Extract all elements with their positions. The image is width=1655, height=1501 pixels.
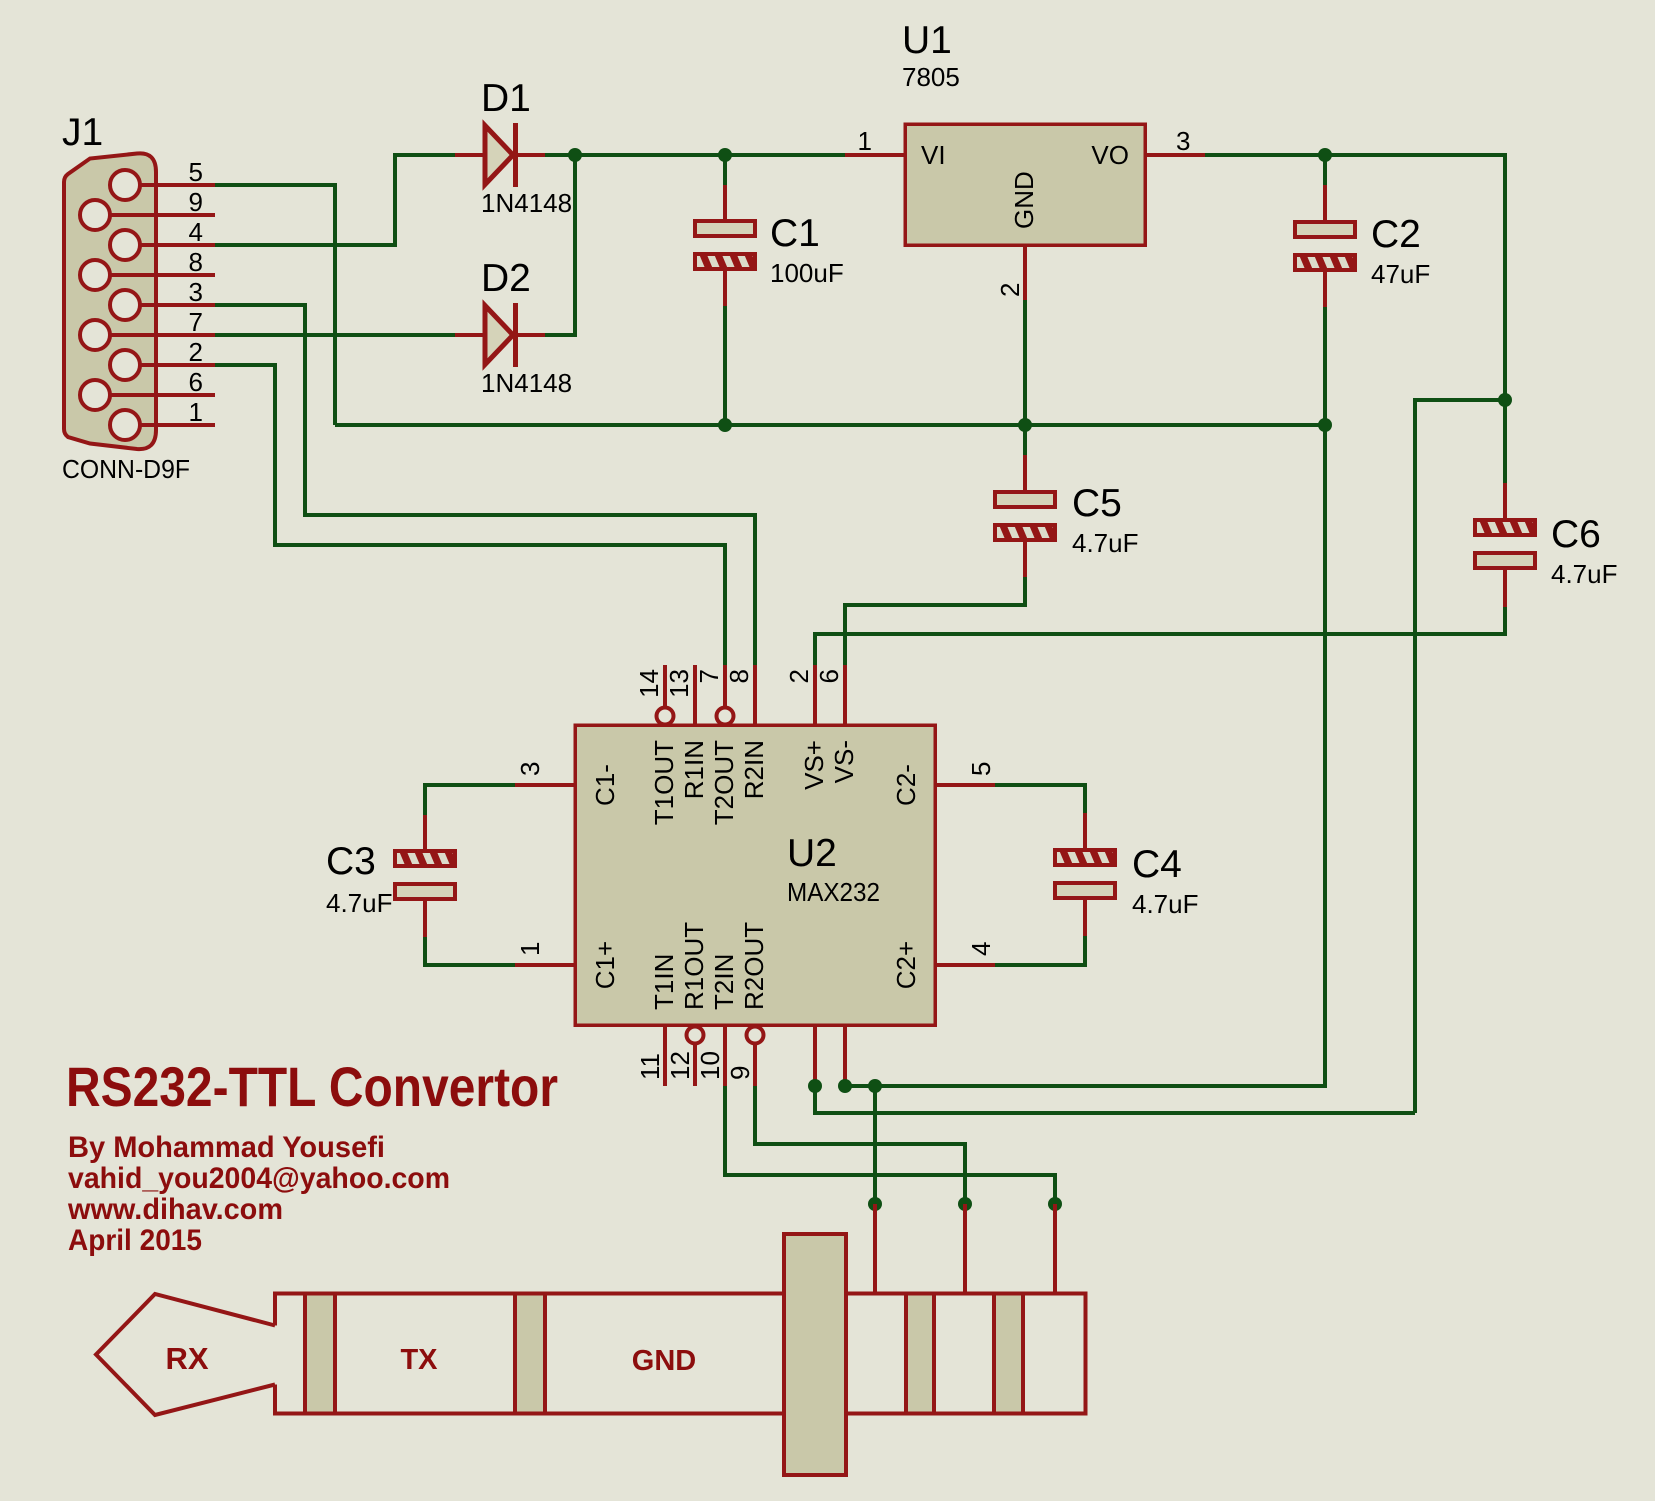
svg-text:1N4148: 1N4148 (481, 188, 572, 218)
svg-text:VO: VO (1091, 140, 1129, 170)
junction +5V/C6 branch (1498, 393, 1512, 407)
svg-text:R1OUT: R1OUT (679, 922, 709, 1010)
J1 pin 9 stub (110, 213, 215, 217)
J1 pin 6 stub (110, 393, 215, 397)
junction D2/D1 cathodes (568, 148, 582, 162)
capacitor C4 (4.7uF) (1047, 813, 1115, 936)
svg-text:8: 8 (724, 669, 754, 683)
jack J2 body (275, 1294, 1086, 1414)
svg-text:C6: C6 (1551, 513, 1601, 556)
wire +5V branch to U2 VCC riser (1415, 400, 1505, 1113)
diode D2 (1N4148) (455, 303, 545, 367)
J1 pin 5 stub (140, 183, 215, 187)
U1 pin 2 GND stub (1023, 245, 1027, 300)
junction ground/jack sleeve branch (868, 1079, 882, 1093)
svg-text:4.7uF: 4.7uF (1072, 528, 1139, 558)
J1 pin 8 contact circle (80, 260, 110, 290)
wire C3 bottom to U2 pin1 C1+ (425, 937, 515, 965)
junction C2/+5V (1318, 148, 1332, 162)
J1 pin 2 stub (140, 363, 215, 367)
J1 pin 4 contact circle (110, 230, 140, 260)
jack center tab (sleeve) (784, 1234, 846, 1475)
IC U1 7805 body (905, 124, 1145, 245)
svg-text:T2IN: T2IN (709, 954, 739, 1010)
svg-text:T1IN: T1IN (649, 954, 679, 1010)
svg-text:13: 13 (664, 669, 694, 698)
svg-text:TX: TX (400, 1344, 438, 1376)
wire C4 bottom to U2 pin4 C2+ (995, 936, 1085, 965)
junction C1/ground (718, 418, 732, 432)
svg-text:J1: J1 (62, 111, 103, 154)
svg-text:3: 3 (1176, 126, 1190, 156)
J1 pin 7 stub (110, 333, 215, 337)
jack insulator band 2 (515, 1294, 545, 1414)
jack TX-side pin stub (963, 1204, 967, 1293)
svg-text:C1+: C1+ (590, 941, 620, 989)
svg-text:D2: D2 (481, 257, 531, 300)
J1 pin 1 stub (140, 423, 215, 427)
wire J1 pin2 to U2 pin7 (T2OUT) (215, 365, 725, 665)
jack insulator band 3 (906, 1294, 934, 1414)
svg-text:MAX232: MAX232 (787, 877, 880, 907)
U2 pin 2 stub (813, 665, 817, 725)
svg-text:C5: C5 (1072, 482, 1122, 525)
J1 pin 5 contact circle (110, 170, 140, 200)
junction jack TX pin (958, 1197, 972, 1211)
U2 pin 11 stub (663, 1025, 667, 1086)
svg-text:CONN-D9F: CONN-D9F (62, 454, 190, 484)
jack insulator band 1 (305, 1294, 335, 1414)
U2 pin 16 VCC stub (813, 1025, 817, 1086)
svg-text:C1-: C1- (590, 764, 620, 806)
svg-text:6: 6 (814, 669, 844, 683)
svg-text:4.7uF: 4.7uF (1132, 889, 1199, 919)
svg-text:12: 12 (665, 1051, 695, 1080)
svg-text:C1: C1 (770, 212, 820, 255)
svg-text:VI: VI (921, 140, 946, 170)
svg-text:4.7uF: 4.7uF (1551, 559, 1618, 589)
svg-text:C3: C3 (326, 840, 376, 883)
svg-text:1: 1 (515, 942, 545, 956)
wire D2 cathode to node VIN (545, 155, 575, 335)
svg-text:R1IN: R1IN (679, 740, 709, 799)
svg-text:U2: U2 (787, 832, 837, 875)
jack tip arrow (RX) (96, 1294, 275, 1415)
capacitor C3 (4.7uF) (387, 815, 455, 937)
U2 pin 1 C1+ stub (515, 963, 575, 967)
capacitor C5 (4.7uF) (987, 455, 1055, 577)
svg-text:VS+: VS+ (799, 740, 829, 790)
jack sleeve pin stub (873, 1204, 877, 1293)
svg-text:7: 7 (189, 307, 203, 337)
wire C1 bottom lead to ground (723, 306, 727, 425)
svg-text:R2OUT: R2OUT (739, 922, 769, 1010)
wire U2 VCC pin to +5V riser (815, 1086, 1415, 1113)
svg-text:T2OUT: T2OUT (709, 740, 739, 825)
wire U2 pin9 R2OUT to jack TX contact (755, 1086, 965, 1204)
svg-text:7: 7 (694, 669, 724, 683)
svg-text:C2+: C2+ (891, 941, 921, 989)
svg-text:4.7uF: 4.7uF (326, 888, 393, 918)
capacitor C2 (47uF) (1287, 185, 1355, 307)
jack insulator band 4 (994, 1294, 1023, 1414)
svg-text:C4: C4 (1132, 843, 1182, 886)
svg-text:RS232-TTL Convertor: RS232-TTL Convertor (66, 1055, 558, 1118)
svg-text:9: 9 (189, 187, 203, 217)
svg-text:RX: RX (165, 1341, 208, 1376)
jack ring pin stub (1053, 1204, 1057, 1293)
svg-text:2: 2 (995, 283, 1025, 297)
J1 pin 1 contact circle (110, 410, 140, 440)
svg-text:T1OUT: T1OUT (649, 740, 679, 825)
U2 pin 7 bubble (717, 708, 734, 725)
svg-text:11: 11 (635, 1053, 665, 1080)
junction C2/ground riser (1318, 418, 1332, 432)
svg-text:vahid_you2004@yahoo.com: vahid_you2004@yahoo.com (68, 1162, 450, 1195)
svg-text:8: 8 (189, 247, 203, 277)
J1 pin 8 stub (110, 273, 215, 277)
wire C5 top lead to ground (1023, 425, 1027, 455)
svg-text:D1: D1 (481, 77, 531, 120)
svg-text:1: 1 (858, 126, 872, 156)
wire U2 pin2 VS+ to C6 bottom (815, 607, 1505, 665)
U1 pin 1 VI stub (845, 153, 905, 157)
IC U2 MAX232 body (575, 725, 935, 1025)
svg-text:14: 14 (634, 669, 664, 698)
U2 pin 10 stub (723, 1025, 727, 1086)
J1 pin 2 contact circle (110, 350, 140, 380)
U2 pin 9 bubble (747, 1027, 764, 1044)
wire U1 GND pin to ground (1023, 300, 1027, 425)
U2 pin 9 stub (753, 1044, 757, 1086)
wire U2 pin10 T2IN to jack ring contact (725, 1086, 1055, 1204)
wire C2 bottom lead to ground (1323, 307, 1327, 425)
J1 pin 4 stub (140, 243, 215, 247)
junction jack sleeve pin (868, 1197, 882, 1211)
capacitor C6 (4.7uF) (1467, 483, 1535, 607)
svg-text:6: 6 (189, 367, 203, 397)
U2 pin 12 bubble (687, 1027, 704, 1044)
junction U2 GND pin (838, 1079, 852, 1093)
junction jack ring pin (1048, 1197, 1062, 1211)
svg-text:C2-: C2- (891, 764, 921, 806)
wire jack sleeve branch (873, 1086, 877, 1204)
wire J1 pin5 to ground rail (215, 185, 335, 425)
U2 pin 4 C2+ stub (935, 963, 995, 967)
capacitor C1 (100uF) (687, 185, 755, 306)
wire C4 top to U2 pin5 C2- (995, 785, 1085, 813)
svg-text:U1: U1 (902, 19, 952, 62)
junction U1 GND/C5/ground (1018, 418, 1032, 432)
svg-text:4: 4 (189, 217, 203, 247)
J1 pin 7 contact circle (80, 320, 110, 350)
wire J1 pin4 to D1 anode (215, 155, 455, 245)
svg-text:47uF: 47uF (1371, 259, 1430, 289)
U2 pin 14 stub (663, 665, 667, 707)
wire U1 VO to +5V rail (1205, 155, 1505, 483)
svg-text:5: 5 (189, 157, 203, 187)
connector J1 CONN-D9F body (64, 153, 156, 449)
svg-text:R2IN: R2IN (739, 740, 769, 799)
svg-text:3: 3 (515, 762, 545, 776)
wire C1 top lead (723, 155, 727, 185)
U2 pin 14 bubble (657, 708, 674, 725)
svg-text:1: 1 (189, 397, 203, 427)
wire J1 pin3 to U2 pin8 (R2IN) (215, 305, 755, 665)
U2 pin 6 stub (843, 665, 847, 725)
svg-text:April 2015: April 2015 (68, 1224, 202, 1257)
junction C1/VIN (718, 148, 732, 162)
svg-text:www.dihav.com: www.dihav.com (67, 1193, 283, 1226)
svg-text:C2: C2 (1371, 213, 1421, 256)
svg-text:3: 3 (189, 277, 203, 307)
wire C3 top to U2 pin3 C1- (425, 785, 515, 815)
svg-text:2: 2 (784, 669, 814, 683)
svg-text:GND: GND (632, 1345, 696, 1377)
U2 pin 13 stub (693, 665, 697, 725)
U2 pin 7 stub (723, 665, 727, 707)
wire ground rail y=425 (335, 423, 1325, 427)
U1 pin 3 VO stub (1145, 153, 1205, 157)
svg-text:5: 5 (966, 762, 996, 776)
svg-text:2: 2 (189, 337, 203, 367)
J1 pin 3 stub (140, 303, 215, 307)
svg-text:By Mohammad Yousefi: By Mohammad Yousefi (68, 1131, 385, 1164)
U2 pin 3 C1- stub (515, 783, 575, 787)
junction U2 VCC pin (808, 1079, 822, 1093)
svg-text:4: 4 (966, 942, 996, 956)
wire U2 GND pin to ground riser (845, 425, 1325, 1086)
svg-text:9: 9 (725, 1066, 755, 1080)
diode D1 (1N4148) (455, 123, 545, 187)
svg-text:7805: 7805 (902, 62, 960, 92)
wire C2 top lead (1323, 155, 1327, 185)
svg-text:100uF: 100uF (770, 258, 844, 288)
U2 pin 5 C2- stub (935, 783, 995, 787)
J1 pin 9 contact circle (80, 200, 110, 230)
J1 pin 6 contact circle (80, 380, 110, 410)
U2 pin 8 stub (753, 665, 757, 725)
U2 pin 12 stub (693, 1044, 697, 1086)
wire D1 cathode to node VIN (545, 153, 845, 157)
svg-text:10: 10 (695, 1051, 725, 1080)
J1 pin 3 contact circle (110, 290, 140, 320)
wire C5 bottom to U2 pin6 VS- (845, 577, 1025, 665)
U2 pin 15 GND stub (843, 1025, 847, 1086)
svg-text:1N4148: 1N4148 (481, 368, 572, 398)
svg-text:GND: GND (1009, 171, 1039, 229)
wire J1 pin7 to D2 anode (215, 333, 455, 337)
svg-text:VS-: VS- (829, 740, 859, 783)
